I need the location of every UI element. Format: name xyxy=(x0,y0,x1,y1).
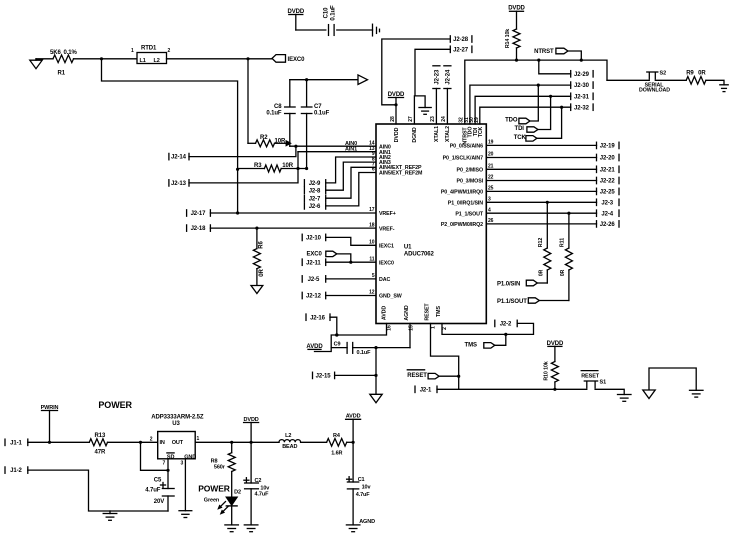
svg-text:VREF+: VREF+ xyxy=(379,211,396,217)
wire xyxy=(167,58,273,60)
connector J2-9 xyxy=(303,180,305,186)
wire xyxy=(247,59,249,144)
svg-text:6: 6 xyxy=(372,167,375,173)
svg-text:DVDD: DVDD xyxy=(394,127,400,142)
power AVDD xyxy=(308,348,321,350)
svg-text:11: 11 xyxy=(369,256,374,262)
connector J2-19 xyxy=(486,144,596,146)
connector J2-23 xyxy=(433,65,440,67)
svg-text:R1: R1 xyxy=(58,71,66,77)
wire AGND node xyxy=(409,324,411,348)
svg-text:AIN1: AIN1 xyxy=(345,147,357,153)
connector J2-16 xyxy=(305,314,307,320)
svg-text:R12: R12 xyxy=(538,238,544,248)
svg-text:1: 1 xyxy=(431,326,437,329)
svg-text:2: 2 xyxy=(168,48,171,54)
connector J2-25 xyxy=(486,190,596,192)
svg-text:D2: D2 xyxy=(234,490,241,496)
svg-text:R6: R6 xyxy=(259,241,265,249)
svg-text:TMS: TMS xyxy=(436,305,442,316)
wire SD net xyxy=(141,442,169,470)
wire xyxy=(655,79,686,81)
svg-text:3: 3 xyxy=(488,197,491,203)
connector J2-4 xyxy=(486,212,596,214)
svg-text:4.7uF: 4.7uF xyxy=(356,492,371,498)
svg-text:IEXC0: IEXC0 xyxy=(379,260,394,266)
inductor L2 xyxy=(279,440,301,443)
connector J2-31 xyxy=(475,96,571,124)
svg-text:J2-22: J2-22 xyxy=(600,179,616,185)
svg-text:P0_1/SCLK/AIN7: P0_1/SCLK/AIN7 xyxy=(443,156,484,162)
wire AIN0 net xyxy=(290,145,376,147)
svg-text:J2-19: J2-19 xyxy=(600,144,616,150)
svg-text:J1-1: J1-1 xyxy=(10,440,22,446)
svg-text:J2-8: J2-8 xyxy=(309,188,321,194)
svg-text:Green: Green xyxy=(204,498,220,504)
svg-text:AVDD: AVDD xyxy=(306,344,323,350)
svg-text:25: 25 xyxy=(488,186,494,192)
svg-text:7: 7 xyxy=(163,461,166,467)
ground xyxy=(346,524,360,526)
svg-text:IEXC0: IEXC0 xyxy=(288,57,306,63)
wire xyxy=(595,389,624,394)
wire xyxy=(290,79,358,81)
resistor R2 xyxy=(256,140,275,147)
svg-text:J2-23: J2-23 xyxy=(435,69,441,85)
connector J2-6 xyxy=(303,203,305,209)
power PWRIN xyxy=(42,410,58,412)
svg-text:J2-27: J2-27 xyxy=(453,47,469,53)
svg-text:RESET: RESET xyxy=(425,303,431,321)
svg-text:5K6: 5K6 xyxy=(50,50,61,56)
resistor R12 xyxy=(546,202,548,248)
svg-text:DGND: DGND xyxy=(412,127,418,142)
svg-text:10R: 10R xyxy=(275,139,286,145)
svg-text:J2-12: J2-12 xyxy=(306,294,322,300)
svg-text:J2-26: J2-26 xyxy=(600,222,616,228)
ground xyxy=(690,389,704,391)
svg-text:J2-9: J2-9 xyxy=(309,181,321,187)
wire xyxy=(459,388,587,390)
svg-text:L1: L1 xyxy=(140,58,146,64)
svg-text:J2-17: J2-17 xyxy=(191,211,207,217)
arrow xyxy=(358,75,368,85)
svg-text:R14 10k: R14 10k xyxy=(505,29,511,48)
svg-text:J2-31: J2-31 xyxy=(574,94,590,100)
svg-text:P2_0/PWM0/IRQ2: P2_0/PWM0/IRQ2 xyxy=(441,222,483,228)
capacitor C9 xyxy=(331,347,347,349)
svg-text:NTRST: NTRST xyxy=(534,49,554,55)
LED D2 xyxy=(226,497,237,505)
connector J2-30 xyxy=(470,85,571,124)
capacitor C8 xyxy=(285,106,296,108)
svg-text:P1_0/IRQ1/SIN: P1_0/IRQ1/SIN xyxy=(448,201,483,207)
svg-text:R10 10k: R10 10k xyxy=(544,361,550,380)
capacitor C7 xyxy=(301,106,312,108)
svg-text:DOWNLOAD: DOWNLOAD xyxy=(639,88,670,94)
svg-text:POWER: POWER xyxy=(198,484,230,494)
power DVDD xyxy=(289,14,303,16)
svg-text:R9: R9 xyxy=(686,71,694,77)
wire xyxy=(301,441,327,443)
switch S1 xyxy=(586,382,588,389)
svg-text:L2: L2 xyxy=(285,433,291,439)
svg-text:J2-13: J2-13 xyxy=(171,181,187,187)
svg-text:P0_2/MISO: P0_2/MISO xyxy=(457,168,483,174)
svg-text:XTAL2: XTAL2 xyxy=(445,126,451,142)
connector J2-7 xyxy=(303,195,305,201)
ground xyxy=(618,394,632,396)
svg-text:TCK: TCK xyxy=(514,135,527,141)
connector J2-17 xyxy=(186,210,188,216)
wire DGND xyxy=(414,96,425,124)
connector J2-11 xyxy=(301,259,303,265)
wire xyxy=(102,59,238,213)
resistor R10 xyxy=(551,362,558,383)
svg-text:J2-10: J2-10 xyxy=(306,236,322,242)
svg-text:10v: 10v xyxy=(362,484,372,490)
svg-text:J2-7: J2-7 xyxy=(309,196,321,202)
wire xyxy=(607,79,649,81)
power DVDD R10 xyxy=(548,345,562,347)
svg-text:J2-20: J2-20 xyxy=(600,156,616,162)
svg-text:J2-18: J2-18 xyxy=(191,226,207,232)
svg-text:J2-29: J2-29 xyxy=(574,72,590,78)
svg-text:J2-11: J2-11 xyxy=(306,260,321,266)
svg-text:J2-30: J2-30 xyxy=(574,83,590,89)
svg-text:P0_3/MOSI: P0_3/MOSI xyxy=(457,179,484,185)
ground xyxy=(720,84,728,86)
svg-text:1.6R: 1.6R xyxy=(331,450,342,456)
switch S2 xyxy=(648,73,650,80)
svg-text:0.1uF: 0.1uF xyxy=(314,111,330,117)
svg-text:R13: R13 xyxy=(95,433,106,439)
svg-text:27: 27 xyxy=(408,116,414,122)
wire AIN1 net xyxy=(298,151,376,153)
svg-text:C1: C1 xyxy=(358,477,365,483)
svg-text:P1_1/SOUT: P1_1/SOUT xyxy=(455,211,484,217)
svg-text:0R: 0R xyxy=(539,269,545,276)
svg-text:XTAL1: XTAL1 xyxy=(434,126,440,142)
wire NTRST net xyxy=(465,60,607,124)
ground xyxy=(109,511,111,514)
RTD RTD1 xyxy=(137,53,167,64)
ground xyxy=(419,107,431,109)
svg-text:C9: C9 xyxy=(334,341,341,347)
wire RESET net xyxy=(431,324,459,390)
svg-text:L2: L2 xyxy=(154,58,160,64)
svg-text:RESET: RESET xyxy=(581,373,600,379)
port IEXC0 xyxy=(272,55,286,63)
svg-text:AVDD: AVDD xyxy=(381,306,387,320)
connector J2-8 xyxy=(303,187,305,193)
svg-text:S2: S2 xyxy=(660,71,667,77)
svg-text:28: 28 xyxy=(390,116,396,122)
svg-text:J1-2: J1-2 xyxy=(10,468,22,474)
svg-text:20V: 20V xyxy=(154,499,164,505)
svg-text:P0_4/PWM1/IRQ0: P0_4/PWM1/IRQ0 xyxy=(441,190,483,196)
svg-text:4.7uF: 4.7uF xyxy=(255,492,270,498)
svg-text:ADUC7062: ADUC7062 xyxy=(404,252,435,258)
svg-text:RESET: RESET xyxy=(407,373,427,379)
svg-text:1: 1 xyxy=(197,436,200,442)
svg-text:R2: R2 xyxy=(260,135,268,141)
svg-text:0R: 0R xyxy=(560,269,566,276)
svg-text:1: 1 xyxy=(131,48,134,54)
svg-text:J2-4: J2-4 xyxy=(601,211,613,217)
connector J2-1 xyxy=(414,386,416,392)
connector J2-15 xyxy=(312,372,314,378)
wire GND pin xyxy=(184,459,186,511)
svg-text:EXC0: EXC0 xyxy=(307,251,323,257)
ground xyxy=(179,510,192,512)
ground xyxy=(643,390,655,399)
svg-text:19: 19 xyxy=(488,140,494,146)
connector J2-14 xyxy=(168,153,170,159)
svg-text:R3: R3 xyxy=(254,163,262,169)
svg-text:IEXC1: IEXC1 xyxy=(379,244,394,250)
svg-text:22: 22 xyxy=(488,175,494,181)
svg-text:J2-6: J2-6 xyxy=(309,204,321,210)
svg-text:5: 5 xyxy=(372,273,375,279)
svg-text:DAC: DAC xyxy=(379,277,390,283)
svg-text:J2-5: J2-5 xyxy=(308,277,320,283)
regulator U3 xyxy=(158,432,196,459)
pin labels U3 xyxy=(167,452,174,454)
ground xyxy=(372,24,374,36)
svg-text:P1.1/SOUT: P1.1/SOUT xyxy=(497,299,527,305)
svg-text:AGND: AGND xyxy=(404,305,410,320)
capacitor C10 xyxy=(296,29,326,31)
wire xyxy=(74,58,138,60)
svg-text:4: 4 xyxy=(488,207,491,213)
wire ground tie xyxy=(649,368,696,390)
svg-text:23: 23 xyxy=(430,116,436,122)
connector J2-3 xyxy=(486,201,596,203)
capacitor C2 xyxy=(245,482,259,484)
svg-text:0.1uF: 0.1uF xyxy=(266,111,282,117)
resistor R1 xyxy=(53,55,74,63)
svg-text:POWER: POWER xyxy=(98,400,132,410)
connector J2-26 xyxy=(486,223,596,225)
svg-text:TCK: TCK xyxy=(478,126,484,137)
svg-text:J2-32: J2-32 xyxy=(574,105,590,111)
svg-text:C8: C8 xyxy=(274,104,282,110)
svg-text:TMS: TMS xyxy=(465,343,477,349)
svg-text:R11: R11 xyxy=(560,238,566,247)
svg-text:560r: 560r xyxy=(214,464,226,470)
svg-text:17: 17 xyxy=(369,207,375,213)
power DVDD C2 xyxy=(244,422,259,424)
svg-text:ADP3333ARM-2.5Z: ADP3333ARM-2.5Z xyxy=(151,415,204,421)
svg-text:C10: C10 xyxy=(324,7,330,18)
capacitor C5 xyxy=(162,488,174,490)
svg-text:18: 18 xyxy=(369,222,375,228)
svg-text:C7: C7 xyxy=(314,104,322,110)
connector J2-28 xyxy=(449,36,451,42)
svg-text:RTD1: RTD1 xyxy=(141,46,157,52)
svg-text:AGND: AGND xyxy=(359,519,375,525)
resistor R9 xyxy=(686,77,706,85)
svg-text:J2-25: J2-25 xyxy=(600,190,616,196)
svg-text:U3: U3 xyxy=(172,421,180,427)
svg-text:20: 20 xyxy=(488,152,494,158)
svg-text:IN: IN xyxy=(160,440,165,446)
connector J2-24 xyxy=(444,65,451,67)
svg-text:J2-28: J2-28 xyxy=(453,37,469,43)
svg-text:J2-24: J2-24 xyxy=(446,69,452,85)
svg-text:C5: C5 xyxy=(154,477,162,483)
connector J1-1 xyxy=(4,439,6,445)
svg-text:GND_SW: GND_SW xyxy=(379,294,402,300)
svg-text:24: 24 xyxy=(441,116,447,122)
connector J2-32 xyxy=(480,107,571,124)
svg-text:0.1%: 0.1% xyxy=(64,50,78,56)
svg-text:U1: U1 xyxy=(404,244,412,250)
ground xyxy=(30,60,42,68)
svg-text:4.7uF: 4.7uF xyxy=(145,488,161,494)
svg-text:S1: S1 xyxy=(600,380,607,386)
svg-text:2: 2 xyxy=(442,327,448,330)
svg-text:J2-15: J2-15 xyxy=(316,374,332,380)
svg-text:BEAD: BEAD xyxy=(282,444,297,450)
svg-text:P1.0/SIN: P1.0/SIN xyxy=(497,282,520,288)
ground xyxy=(251,286,263,294)
svg-text:R4: R4 xyxy=(333,433,341,439)
svg-text:2: 2 xyxy=(150,436,153,442)
svg-text:10R: 10R xyxy=(282,163,293,169)
connector J2-20 xyxy=(486,157,596,159)
wire OUT rail xyxy=(195,441,279,443)
resistor R6 xyxy=(253,249,260,269)
power AVDD C1 xyxy=(346,418,361,420)
connector J1-2 xyxy=(4,467,6,473)
svg-text:C2: C2 xyxy=(255,478,262,484)
svg-text:0.1uF: 0.1uF xyxy=(357,350,372,356)
svg-text:47R: 47R xyxy=(95,449,106,455)
svg-text:J2-3: J2-3 xyxy=(601,200,613,206)
connector J2-13 xyxy=(168,180,170,186)
capacitor C1 xyxy=(347,481,358,483)
resistor R14 xyxy=(513,29,520,48)
svg-text:J2-21: J2-21 xyxy=(600,167,616,173)
wire TMS net xyxy=(442,323,534,334)
connector J2-10 xyxy=(301,234,303,240)
svg-text:10: 10 xyxy=(369,240,375,246)
svg-text:TDO: TDO xyxy=(505,117,518,123)
svg-text:12: 12 xyxy=(369,290,375,296)
svg-text:J2-2: J2-2 xyxy=(500,322,512,328)
svg-text:J2-14: J2-14 xyxy=(171,155,187,161)
svg-text:21: 21 xyxy=(488,164,494,170)
ground xyxy=(370,394,382,403)
svg-text:VREF-: VREF- xyxy=(379,226,395,232)
power DVDD R14 xyxy=(510,10,524,12)
connector J2-27 xyxy=(449,46,451,52)
connector J2-2 xyxy=(494,320,496,326)
resistor R3 xyxy=(264,165,281,172)
svg-text:10v: 10v xyxy=(260,485,270,491)
port RESET xyxy=(407,369,424,371)
ground xyxy=(225,524,239,526)
connector J2-29 xyxy=(539,60,571,74)
connector J2-18 xyxy=(186,225,188,231)
power DVDD pin28 xyxy=(389,97,404,99)
svg-text:AIN5/EXT_REF2M: AIN5/EXT_REF2M xyxy=(379,171,423,177)
resistor R4 xyxy=(327,439,347,447)
IC U1 ADuC7062 xyxy=(376,124,486,324)
svg-text:0R: 0R xyxy=(698,71,706,77)
connector J2-22 xyxy=(486,180,596,182)
resistor R11 xyxy=(568,213,570,248)
svg-text:0.1uF: 0.1uF xyxy=(330,5,336,21)
connector J2-21 xyxy=(486,168,596,170)
svg-text:J2-1: J2-1 xyxy=(420,387,432,393)
svg-text:TDI: TDI xyxy=(515,126,525,132)
svg-text:J2-16: J2-16 xyxy=(310,315,326,321)
svg-text:16: 16 xyxy=(386,325,392,331)
connector J2-12 xyxy=(301,292,303,298)
resistor R13 xyxy=(89,439,107,446)
svg-text:3: 3 xyxy=(181,461,184,467)
ground xyxy=(244,524,258,526)
connector J2-5 xyxy=(301,276,303,282)
svg-text:26: 26 xyxy=(488,218,494,224)
svg-text:0R: 0R xyxy=(259,269,265,277)
resistor R8 xyxy=(231,442,233,452)
svg-text:OUT: OUT xyxy=(172,440,184,446)
wire AVDD node xyxy=(315,324,387,352)
